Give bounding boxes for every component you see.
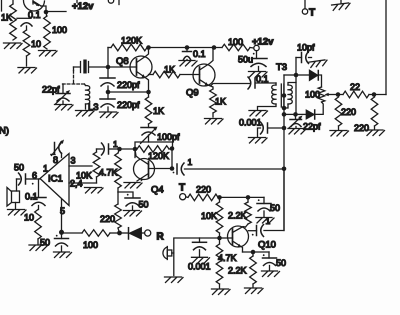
wire Q8 base <box>108 66 137 68</box>
resistor 2.2K (Q10 emitter) <box>250 256 257 284</box>
resistor 220 (left) <box>335 97 342 126</box>
ground (10) <box>18 68 37 74</box>
node Q8 base <box>106 65 111 70</box>
node Q8 collector <box>146 45 151 50</box>
node Q4 base ac <box>170 166 175 171</box>
svg-text:50: 50 <box>14 163 24 173</box>
svg-text:0.1: 0.1 <box>28 10 41 20</box>
transistor Q7 (cropped at top edge) <box>23 0 44 11</box>
capacitor 50 (pin5) <box>61 233 63 239</box>
ground (0.001) <box>249 138 268 144</box>
capacitor 100pf trimmer <box>148 124 150 128</box>
svg-text:0.1: 0.1 <box>25 192 38 202</box>
node bus 95 <box>282 93 287 98</box>
node 10pf junction <box>294 73 299 78</box>
wire pin5 <box>61 200 63 233</box>
capacitor 22pf trimmer <box>62 84 64 93</box>
capacitor 22pf trimmer (detector) <box>295 114 297 119</box>
wire detector to bus <box>284 113 296 115</box>
resistor 10 (IC1) <box>35 210 42 240</box>
resistor 120K (tuning) <box>137 146 169 153</box>
terminal +12v (cropped) <box>108 0 113 3</box>
capacitor 0.1 (bypass) <box>186 48 188 52</box>
svg-text:R: R <box>157 232 165 243</box>
microphone/speaker (input) <box>16 179 18 191</box>
node 22-right <box>372 92 377 97</box>
ground (2.2K Q10) <box>245 288 264 294</box>
capacitor 0.001 (Q10 base) <box>199 238 201 242</box>
ground (50 Q4) <box>124 211 142 217</box>
wire dashed (alt tank) <box>73 67 75 71</box>
resistor 220 (to diode node) <box>115 204 122 228</box>
svg-text:T3: T3 <box>276 62 287 73</box>
capacitor 0.1 (IC1) <box>38 179 40 198</box>
node 0.1 bypass <box>185 45 190 50</box>
ground (50 bias) <box>256 218 274 224</box>
resistor 220 (right) <box>371 97 378 126</box>
ground (100) <box>39 51 58 57</box>
svg-text:22pf: 22pf <box>42 85 60 95</box>
wire right from node <box>48 11 66 13</box>
svg-text:100: 100 <box>305 90 320 100</box>
svg-text:220: 220 <box>354 123 369 133</box>
resistor 4.7K (Q10) <box>216 244 223 284</box>
transformer T3 primary <box>275 83 277 85</box>
wire bias rail <box>220 196 265 198</box>
resistor 4.7K <box>115 153 122 188</box>
capacitor 1 (coupling) <box>97 148 103 150</box>
wire right riser <box>385 0 387 95</box>
capacitor 220pf (upper) <box>107 67 109 78</box>
capacitor 0.1 (to T3) <box>248 77 251 89</box>
transistor Q9 <box>193 64 215 86</box>
ground (mic) <box>8 210 27 216</box>
crystal Y1 <box>74 62 107 73</box>
ground (50 pin5) <box>54 252 72 258</box>
node 4.7K top <box>117 147 122 152</box>
terminal +12v <box>254 45 259 50</box>
node pin5 <box>59 230 64 235</box>
node 220pf junction left <box>106 90 111 95</box>
transistor Q8 <box>130 56 152 78</box>
capacitor 220pf (lower) <box>100 98 115 100</box>
svg-text:4.7K: 4.7K <box>218 253 237 263</box>
svg-text:1K: 1K <box>1 13 12 23</box>
ground (pins 2 4) <box>85 188 104 194</box>
terminal R <box>145 230 151 236</box>
capacitor 1 (Q10 drive) <box>248 230 256 232</box>
wire +12v rail <box>149 47 223 49</box>
svg-text:100: 100 <box>83 240 98 250</box>
svg-text:0.1: 0.1 <box>256 74 269 84</box>
svg-text:IC1: IC1 <box>48 174 63 185</box>
diode D3 (R) <box>120 232 128 234</box>
svg-text:1: 1 <box>266 216 271 226</box>
diode D1 <box>296 74 310 76</box>
capacitor 10pf <box>296 57 302 59</box>
transistor Q10 <box>228 226 249 247</box>
svg-text:2.2K: 2.2K <box>228 211 247 221</box>
svg-text:0.1: 0.1 <box>193 49 206 59</box>
svg-text:+12v: +12v <box>72 1 94 12</box>
svg-text:120K: 120K <box>148 151 169 161</box>
node A <box>44 10 49 15</box>
svg-text:T: T <box>179 183 185 194</box>
node bias top <box>217 195 222 200</box>
svg-text:Q9: Q9 <box>186 88 199 99</box>
svg-text:50: 50 <box>276 258 286 268</box>
capacitor 50 (bias) <box>263 197 265 203</box>
ground (22pf det) <box>288 129 306 135</box>
ground (0.001 Q10) <box>192 257 210 263</box>
wire pin5 out <box>62 232 83 235</box>
ground (T3 primary) <box>249 111 268 117</box>
ground (1K) <box>4 43 23 49</box>
wire pin2 4 <box>69 182 97 184</box>
svg-text:100: 100 <box>228 37 243 47</box>
svg-text:1: 1 <box>43 164 48 174</box>
node bus-sec bottom <box>282 106 287 111</box>
svg-text:1K: 1K <box>164 65 175 75</box>
diode D2 <box>306 110 314 119</box>
terminal T (top) <box>302 9 307 14</box>
svg-text:22: 22 <box>350 82 360 92</box>
svg-text:10pf: 10pf <box>297 43 315 53</box>
svg-text:220pf: 220pf <box>117 100 140 110</box>
svg-text:2.2K: 2.2K <box>228 266 247 276</box>
ground (50u) <box>249 72 268 78</box>
ground (22pf) <box>55 105 74 111</box>
svg-text:0.001: 0.001 <box>188 262 211 272</box>
wire to Q4 base node <box>171 149 173 169</box>
svg-text:100: 100 <box>52 25 67 35</box>
capacitor trimmer (pins 1-8) <box>52 153 55 155</box>
resistor 100 (node A to ground) <box>46 14 48 16</box>
ground (50 Q10) <box>262 271 280 277</box>
wire parallel rail <box>135 142 173 149</box>
svg-text:0.001: 0.001 <box>239 118 262 128</box>
node Q8 emitter <box>146 90 151 95</box>
pot wiper arrow <box>329 94 338 96</box>
ground (10 IC1) <box>29 245 48 251</box>
resistor 2.2K (Q10 collector) <box>245 202 252 224</box>
resistor 1K (Q8 emitter) <box>145 97 152 124</box>
node Q10 emitter <box>251 250 256 255</box>
wire Q7 emitter to node <box>41 6 46 12</box>
capacitor 50 (Q10 emitter) <box>268 252 270 258</box>
svg-text:4.7K: 4.7K <box>99 168 118 178</box>
node bus-audio <box>282 167 287 172</box>
svg-text:100pf: 100pf <box>157 132 180 142</box>
transformer T3 core <box>281 84 284 107</box>
svg-text:50u: 50u <box>238 55 253 65</box>
svg-text:220: 220 <box>100 214 115 224</box>
svg-text:1: 1 <box>188 157 193 167</box>
wire stub top edge <box>118 0 120 5</box>
potentiometer 100 <box>318 87 325 102</box>
wire 220pf junction <box>108 86 149 99</box>
node sec top <box>284 74 296 76</box>
svg-text:Q10: Q10 <box>258 240 276 251</box>
ground (220 left) <box>330 131 349 137</box>
ground (4.7K Q10) <box>212 289 231 295</box>
resistor 100 (supply) <box>222 44 250 51</box>
capacitor 50 (Q4) <box>118 192 133 198</box>
resistor 10K (feedback) <box>93 152 100 177</box>
svg-text:50: 50 <box>40 238 50 248</box>
node tune left <box>133 147 138 152</box>
wire node to Q4 collector node <box>120 148 136 150</box>
resistor 22 <box>343 91 369 98</box>
resistor 220 (from T) <box>186 196 188 199</box>
node wiper-22 <box>336 92 341 97</box>
svg-text:Q4: Q4 <box>151 185 164 196</box>
svg-text:N): N) <box>0 126 9 137</box>
resistor 1K (Q9 base) <box>149 74 154 76</box>
ground (Q9 1K) <box>205 119 224 125</box>
svg-text:1K: 1K <box>153 106 164 116</box>
capacitor 1 (Q4 base) <box>176 164 178 174</box>
svg-text:3: 3 <box>71 156 76 166</box>
inductor L3 <box>85 84 86 86</box>
wire pot bottom <box>315 102 323 114</box>
node bus-0.001 <box>282 126 287 131</box>
svg-text:10: 10 <box>24 213 34 223</box>
ground (220pf lower) <box>100 112 119 118</box>
svg-text:10K: 10K <box>76 171 92 181</box>
ground (L3) <box>76 111 95 117</box>
resistor 10 (to ground) <box>23 30 30 56</box>
transistor Q4 (mirrored) <box>134 159 155 180</box>
svg-text:50: 50 <box>139 200 149 210</box>
wire earpiece line <box>174 238 220 276</box>
svg-text:Q8: Q8 <box>116 56 129 67</box>
svg-text:220: 220 <box>341 107 356 117</box>
wire Q9 emitter out <box>211 84 250 86</box>
capacitor 50 (mic in) <box>17 178 20 180</box>
svg-text:220pf: 220pf <box>117 80 140 90</box>
resistor 1K (input bias) <box>10 4 17 40</box>
ground (10pf) <box>309 60 328 68</box>
earpiece (speaker) <box>166 247 168 260</box>
svg-text:1: 1 <box>113 139 118 149</box>
node tune right <box>170 146 175 151</box>
svg-text:120K: 120K <box>121 36 142 46</box>
node R junction <box>117 231 122 236</box>
resistor 10K (bias) <box>216 202 223 233</box>
ground (top, cropped) <box>340 0 342 3</box>
op-amp IC1 <box>40 154 69 206</box>
wire pin3 <box>69 165 92 167</box>
resistor 120K (Q8 feedback) <box>108 47 111 49</box>
node Q10 base <box>217 236 222 241</box>
svg-text:T: T <box>309 8 315 19</box>
wire sec-top drop <box>295 58 297 115</box>
svg-text:1K: 1K <box>215 97 226 107</box>
ground (0.1 bypass) <box>179 61 197 67</box>
transformer T3 secondary <box>288 85 292 104</box>
svg-text:10K: 10K <box>201 211 217 221</box>
svg-text:50: 50 <box>270 203 280 213</box>
resistor 1K (Q9 emitter) <box>210 89 217 113</box>
svg-text:220: 220 <box>196 185 211 195</box>
svg-text:8: 8 <box>53 155 58 165</box>
node detector <box>293 112 298 117</box>
capacitor 0.1 (top-left) <box>17 17 31 19</box>
resistor 100 (R line) <box>82 230 110 237</box>
node Q9 collector feed <box>212 45 217 50</box>
capacitor 50u (supply) <box>256 51 258 59</box>
ground (earpiece) <box>165 277 184 283</box>
node 2.2K top <box>246 195 251 200</box>
wire emitter <box>243 251 270 253</box>
svg-text:+12v: +12v <box>252 37 274 48</box>
ground (Q4 emitter) <box>124 183 142 189</box>
svg-text:5: 5 <box>60 206 65 216</box>
wire bus (detector) <box>283 75 285 231</box>
svg-text:10: 10 <box>31 39 41 49</box>
ground (220 right) <box>366 130 385 136</box>
capacitor 0.001 (IF) <box>268 127 284 129</box>
wire left edge stub <box>1 0 3 11</box>
terminal T (mid) <box>180 194 186 200</box>
node bus 114 <box>282 112 287 117</box>
wire antenna stub <box>304 0 306 9</box>
wire Q4 collector <box>134 149 136 158</box>
